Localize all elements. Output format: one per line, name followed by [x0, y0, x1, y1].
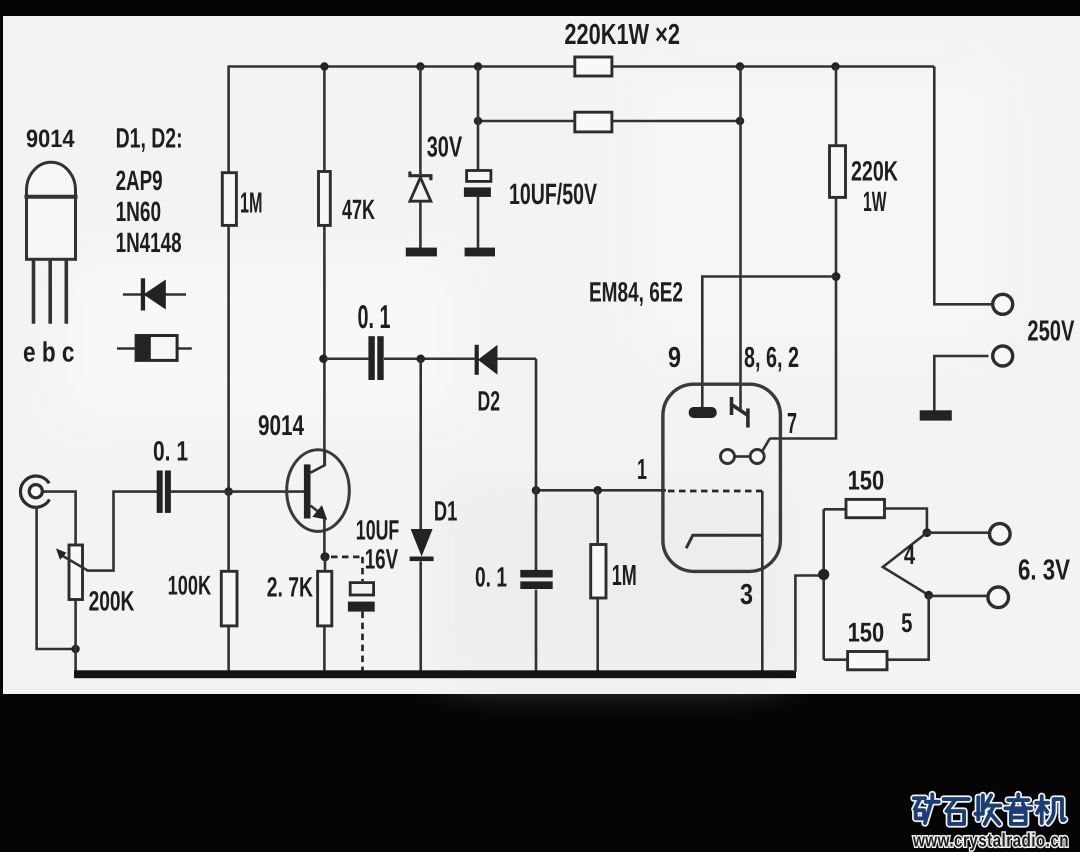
svg-text:0. 1: 0. 1 — [475, 561, 507, 592]
ground bar (zener) — [406, 248, 437, 257]
wire 1M grid column — [596, 490, 599, 671]
svg-text:3: 3 — [740, 579, 753, 611]
resistor 1M (grid) — [591, 545, 606, 599]
wire pot bottom to bus — [74, 600, 77, 672]
resistor 2.7K — [318, 571, 332, 626]
svg-text:1N60: 1N60 — [116, 196, 162, 227]
svg-text:D1, D2:: D1, D2: — [116, 123, 183, 154]
node V5 tap on H1 — [736, 62, 744, 70]
svg-text:1: 1 — [637, 454, 647, 486]
wire V6 down to pin7 — [770, 197, 837, 438]
transistor base bar — [304, 464, 311, 518]
capacitor 0.1 (input) — [157, 471, 171, 513]
node pin 5 — [924, 591, 933, 600]
resistor 220K 1W — [830, 146, 846, 198]
svg-text:e b c: e b c — [23, 336, 75, 367]
svg-text:6. 3V: 6. 3V — [1018, 555, 1071, 587]
svg-text:30V: 30V — [427, 132, 463, 164]
svg-text:100K: 100K — [168, 571, 212, 601]
wire base node to 100K and ground — [227, 492, 230, 672]
node 220K tap on H1 — [831, 62, 839, 70]
wire emitter to bus — [323, 557, 326, 672]
node 0.1 tap on V2 — [319, 354, 328, 363]
resistor 47K — [319, 172, 331, 226]
svg-text:0. 1: 0. 1 — [358, 298, 391, 335]
svg-text:0. 1: 0. 1 — [153, 435, 188, 466]
wire 47K to collector — [323, 225, 326, 465]
diode D1 — [410, 529, 434, 561]
tube pin 1 dashed grid — [668, 490, 762, 493]
svg-text:1N4148: 1N4148 — [116, 227, 182, 258]
node cap tap on H2 — [474, 117, 482, 125]
node heater center — [818, 569, 829, 580]
diode D2 — [475, 345, 498, 375]
wire second rail H2 — [478, 120, 741, 123]
wire heater node column V13 — [822, 509, 825, 659]
svg-text:2AP9: 2AP9 — [116, 165, 163, 196]
wire V3 zener column — [419, 67, 422, 249]
node base junction — [224, 487, 233, 496]
tube pin 9 electrode bar — [689, 407, 717, 418]
svg-text:250V: 250V — [1027, 316, 1074, 348]
svg-text:9014: 9014 — [258, 410, 304, 442]
svg-text:9014: 9014 — [26, 125, 75, 153]
node cap tap on H1 — [474, 62, 482, 70]
ground bar (250V) — [920, 410, 952, 420]
capacitor 10UF/16V electrolytic — [348, 583, 375, 612]
svg-text:150: 150 — [848, 618, 885, 648]
svg-text:7: 7 — [787, 408, 797, 440]
svg-text:8, 6, 2: 8, 6, 2 — [744, 342, 799, 374]
node pin9/pin7 junction — [832, 272, 841, 281]
legend diode symbol — [123, 278, 186, 310]
wire jack to pot — [43, 492, 76, 545]
node pot ground junction — [71, 645, 79, 653]
svg-text:D2: D2 — [478, 385, 501, 416]
svg-text:2. 7K: 2. 7K — [267, 571, 313, 602]
wire 150 top to pin4 — [885, 509, 927, 533]
resistor 150 (bottom) — [848, 652, 887, 670]
wire V4 cap column — [477, 67, 480, 249]
wire bus to heater node — [795, 576, 823, 673]
svg-text:220K: 220K — [851, 155, 898, 186]
potentiometer wiper arrow — [56, 492, 157, 571]
terminal 6.3V a — [990, 524, 1011, 545]
ground bus bar — [74, 670, 796, 678]
zener diode 30V — [410, 172, 431, 202]
wire V5 down to tube pins 8,6,2 — [739, 67, 742, 411]
svg-text:10UF: 10UF — [356, 514, 400, 545]
resistor 1M (upper) — [222, 173, 236, 226]
wire to 150 bottom — [824, 595, 929, 660]
transistor Q1 9014 circle — [287, 450, 350, 532]
svg-text:www.crystalradio.cn: www.crystalradio.cn — [912, 831, 1069, 852]
node V2 top — [320, 62, 328, 70]
svg-text:10UF/50V: 10UF/50V — [509, 178, 597, 211]
wire D1 column V9 — [419, 359, 422, 672]
terminal 250V- — [993, 346, 1013, 366]
svg-text:200K: 200K — [89, 586, 135, 617]
node pin 4 — [923, 528, 932, 537]
wire H5 pin 1 — [536, 489, 666, 492]
node D1 tap on H4 — [416, 354, 425, 363]
wire base H4b — [171, 490, 305, 493]
svg-text:16V: 16V — [365, 543, 399, 574]
resistor 100K — [221, 571, 237, 626]
dashed cap to bus — [361, 612, 364, 677]
wire V2 down from H1 — [323, 65, 326, 171]
terminal 6.3V b — [988, 587, 1009, 608]
heater chevron — [883, 533, 929, 596]
node 1M grid tap — [593, 486, 602, 495]
ground bar (10UF/50V) — [465, 248, 495, 257]
svg-text:9: 9 — [668, 342, 681, 374]
potentiometer 200K body — [69, 545, 83, 600]
svg-text:4: 4 — [904, 540, 915, 570]
capacitor 0.1 (interstage) — [368, 336, 383, 380]
node zener tap on H1 — [416, 62, 424, 70]
tube EM84 envelope — [663, 384, 781, 571]
node D2 output corner — [532, 486, 541, 495]
wire V6 top — [835, 67, 838, 146]
resistor 150 (top) — [846, 499, 885, 517]
wire jack shield ground — [37, 507, 76, 650]
tube screen electrode — [686, 535, 762, 548]
transistor emitter lead with arrow — [311, 505, 328, 556]
input jack — [20, 476, 49, 507]
svg-text:150: 150 — [848, 466, 885, 496]
wire top rail H1 — [229, 65, 935, 68]
wire to 150 top — [824, 508, 846, 511]
capacitor 10UF/50V electrolytic — [464, 171, 491, 197]
tube pin 7 target contacts — [721, 439, 770, 464]
wire V10 D2 column — [535, 359, 538, 672]
transistor package legend 9014 (TO-92 outline) — [25, 162, 78, 323]
svg-text:1M: 1M — [612, 560, 637, 592]
wire pin 3 down to ground bus — [761, 491, 764, 672]
wire pin5 to terminal — [929, 595, 989, 598]
svg-text:1M: 1M — [240, 188, 263, 220]
resistor 220K1W (second, in H2) — [575, 112, 612, 132]
svg-text:47K: 47K — [342, 194, 375, 225]
wire V1 down from H1 — [227, 65, 230, 172]
node V5 tap on H2 — [736, 117, 744, 125]
watermark crystalradio logo — [914, 795, 1065, 824]
wire H3 pin9 link — [702, 277, 836, 408]
node emitter junction — [320, 552, 329, 561]
transistor collector lead — [311, 449, 325, 473]
wire right rail V8 to 250V — [934, 67, 991, 412]
svg-text:1W: 1W — [863, 186, 887, 217]
svg-text:220K1W ×2: 220K1W ×2 — [564, 19, 680, 51]
capacitor 0.1 (grid, horizontal plates) — [520, 570, 552, 589]
tube pins 8,6,2 zigzag — [732, 397, 749, 428]
wire H4 coupling row — [324, 357, 536, 360]
wire 1M to base node — [227, 225, 230, 491]
terminal 250V+ — [993, 294, 1013, 314]
svg-text:EM84, 6E2: EM84, 6E2 — [589, 276, 683, 307]
wire pin4 to terminal — [927, 531, 990, 534]
resistor 220K1W (top, in H1) — [575, 57, 612, 76]
svg-text:D1: D1 — [434, 495, 457, 526]
svg-text:5: 5 — [901, 608, 912, 638]
dashed link to bypass cap — [331, 557, 363, 581]
legend diode package (band) — [117, 336, 192, 361]
